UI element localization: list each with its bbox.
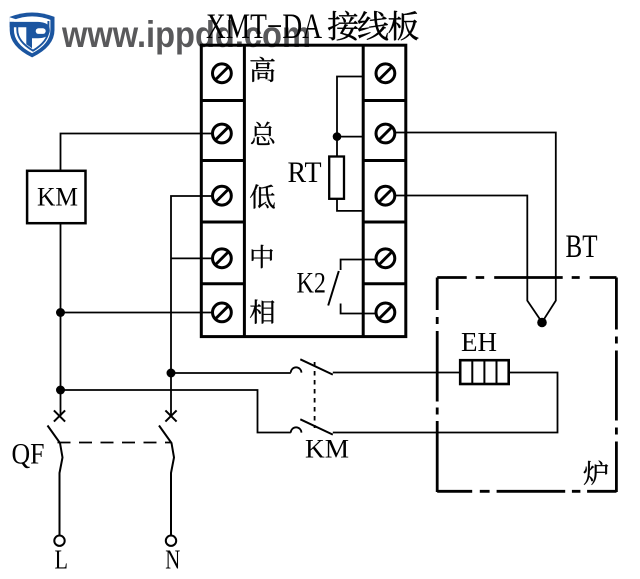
wire node N to KM contact top (171, 372, 291, 374)
terminal board left column divider (243, 45, 246, 336)
breaker QF linkage dashed (58, 442, 171, 444)
terminal screw 相 (213, 303, 232, 322)
title char 板 (388, 11, 418, 41)
wire EH right to KM bottom contact (333, 373, 558, 433)
contactor KM main contact bottom jaw (291, 427, 302, 432)
svg-text:BT: BT (566, 229, 598, 265)
wire right terminal 4 to K2 top (341, 260, 376, 271)
left column cell divider 1 (201, 99, 244, 102)
wire KM coil bottom to QF pole L (60, 223, 62, 416)
terminal N open circle (166, 536, 176, 546)
wire right terminal 2 to BT right lead (396, 133, 556, 323)
wire terminal 低 down to QF pole N (171, 196, 212, 416)
svg-text:QF: QF (12, 438, 45, 471)
terminal board outer frame (201, 45, 405, 336)
contactor KM main contact top blade (300, 359, 333, 374)
svg-text:N: N (165, 544, 180, 575)
furnace boundary top (437, 276, 616, 279)
node N to heater branch (167, 369, 176, 378)
furnace boundary left (436, 278, 439, 493)
breaker QF pole N blade (159, 426, 174, 536)
svg-text:RT: RT (288, 157, 322, 189)
furnace boundary bottom (437, 490, 616, 493)
contactor KM main contact bottom blade (300, 419, 333, 434)
wire KM coil top to terminal 总 (61, 134, 213, 171)
terminal screw right 3 (376, 186, 395, 205)
switch K2 blade (328, 271, 339, 306)
terminal screw 总 (213, 124, 232, 143)
terminal label 相 (250, 300, 274, 324)
furnace boundary right (615, 278, 618, 493)
resistor RT (329, 157, 344, 199)
QF pole N fixed contact mark (165, 410, 176, 421)
right column cell divider 4 (363, 282, 406, 285)
terminal screw 中 (213, 249, 232, 268)
label 炉 furnace (584, 461, 608, 485)
wire KM top contact to EH (333, 372, 460, 374)
terminal board right column divider (362, 45, 365, 336)
wire node to terminal 相 (61, 312, 213, 314)
contactor KM linkage dashed (314, 362, 316, 428)
svg-text:K2: K2 (297, 266, 327, 299)
wire right terminal 3 to BT left lead (396, 196, 542, 323)
right column cell divider 2 (363, 159, 406, 162)
right column cell divider 3 (363, 221, 406, 224)
wire node L to KM contact bottom (61, 390, 291, 433)
wire K2 bottom to right terminal 5 (341, 304, 376, 314)
terminal label 中 (252, 245, 273, 268)
breaker QF pole L blade (48, 426, 63, 536)
title char 接 (328, 11, 358, 41)
terminal screw 低 (213, 186, 232, 205)
QF pole L fixed contact mark (54, 410, 65, 421)
terminal label 总 (251, 122, 274, 145)
right column cell divider 1 (363, 99, 406, 102)
terminal screw right 2 (376, 124, 395, 143)
terminal screw right 5 (376, 303, 395, 322)
terminal L open circle (54, 536, 64, 546)
left column cell divider 4 (201, 282, 244, 285)
svg-text:EH: EH (461, 326, 497, 357)
thermocouple BT tip (537, 318, 547, 328)
wire right terminal 1 to RT top (337, 77, 365, 157)
terminal label 低 (250, 184, 275, 208)
watermark logo shield (10, 12, 55, 57)
left column cell divider 3 (201, 221, 244, 224)
terminal screw 高 (213, 64, 232, 83)
terminal screw right 1 (376, 64, 395, 83)
terminal screw right 4 (376, 249, 395, 268)
node RT junction (333, 132, 342, 141)
contactor KM main contact top jaw (291, 367, 302, 372)
node L to heater branch (56, 386, 65, 395)
terminal label 高 (250, 57, 274, 82)
wire RT bottom to right terminal 3 (337, 199, 365, 211)
heater EH body (460, 360, 509, 384)
node L-相 junction (56, 308, 65, 317)
svg-text:L: L (55, 544, 69, 575)
svg-text:KM: KM (305, 434, 349, 464)
contactor coil KM box (27, 171, 85, 223)
svg-text:XMT−DA: XMT−DA (206, 6, 322, 46)
left column cell divider 2 (201, 159, 244, 162)
title char 线 (358, 11, 388, 40)
svg-text:KM: KM (37, 181, 78, 211)
wire RT junction to right terminal 2 (337, 136, 365, 138)
wire terminal 中 tap (171, 257, 212, 259)
